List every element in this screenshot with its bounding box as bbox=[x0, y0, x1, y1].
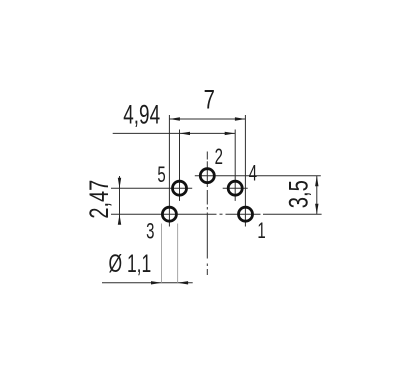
svg-text:5: 5 bbox=[157, 162, 165, 187]
svg-text:4: 4 bbox=[249, 161, 257, 186]
svg-text:2: 2 bbox=[215, 144, 223, 169]
svg-text:1: 1 bbox=[257, 218, 265, 243]
svg-text:Ø 1,1: Ø 1,1 bbox=[109, 249, 152, 278]
svg-text:2,47: 2,47 bbox=[84, 180, 115, 219]
svg-text:7: 7 bbox=[204, 85, 215, 116]
svg-text:3: 3 bbox=[146, 219, 154, 244]
svg-text:3,5: 3,5 bbox=[284, 180, 315, 208]
svg-text:4,94: 4,94 bbox=[123, 99, 160, 129]
